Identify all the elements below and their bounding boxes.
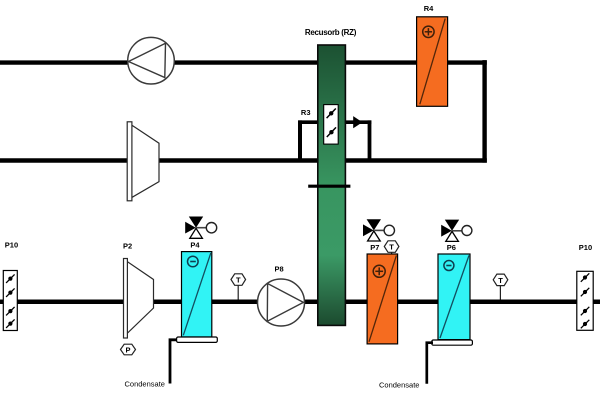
svg-text:T: T	[498, 276, 503, 285]
valve V3 (above P6)	[441, 220, 472, 242]
svg-text:P8: P8	[275, 264, 284, 273]
svg-text:P2: P2	[123, 241, 132, 250]
svg-text:T: T	[236, 276, 241, 285]
svg-text:R4: R4	[424, 4, 434, 13]
wire: second (regeneration) duct	[0, 158, 487, 162]
wire: condensate drain (P4)	[170, 340, 177, 384]
heater R4	[417, 4, 448, 106]
rotor divider line	[308, 185, 350, 188]
drip pan under P6	[432, 340, 473, 345]
wire: R3 bypass left drop	[298, 120, 302, 160]
svg-text:R3: R3	[301, 108, 311, 117]
coil P6 (cooling coil)	[438, 243, 470, 340]
wire: right vertical return duct	[482, 60, 486, 163]
rotor Recusorb (RZ)	[305, 28, 357, 325]
coil P4 (cooling coil)	[182, 241, 212, 338]
svg-text:T: T	[389, 243, 394, 252]
svg-text:P10: P10	[5, 240, 18, 249]
sensor P (below P2)	[121, 344, 136, 355]
damper R3	[301, 105, 338, 145]
sensor T3 (above process duct, right)	[493, 274, 508, 299]
drip pan under P4	[177, 337, 218, 342]
svg-text:P6: P6	[447, 243, 456, 252]
fan F2 (second duct trapezoid fan)	[127, 122, 159, 201]
heater P7	[367, 243, 398, 344]
svg-text:P4: P4	[190, 241, 200, 250]
svg-text:P7: P7	[370, 243, 379, 252]
svg-text:Condensate: Condensate	[125, 380, 165, 389]
svg-text:P: P	[125, 346, 130, 355]
svg-text:Condensate: Condensate	[379, 381, 419, 390]
wire: R3 bypass horizontal	[298, 120, 371, 124]
wire: top supply duct	[0, 60, 487, 64]
valve V1 (above P4)	[185, 217, 217, 239]
arrow on R3 bypass	[353, 116, 362, 128]
valve V2 (above P7)	[363, 219, 394, 241]
sensor T2 (beside P7)	[384, 241, 399, 256]
wire: condensate drain (P6)	[427, 343, 433, 384]
svg-text:P10: P10	[579, 243, 592, 252]
filter P10 (right)	[577, 243, 593, 330]
sensor T1 (above process duct)	[231, 274, 246, 300]
fan P2	[123, 241, 154, 338]
wire: R3 bypass right drop	[368, 120, 372, 160]
svg-text:Recusorb (RZ): Recusorb (RZ)	[305, 28, 357, 37]
filter P10 (left)	[3, 240, 18, 330]
fan F1 (top duct circle fan)	[128, 37, 175, 84]
wire: bottom process duct	[0, 299, 600, 304]
pump P8	[258, 264, 305, 326]
